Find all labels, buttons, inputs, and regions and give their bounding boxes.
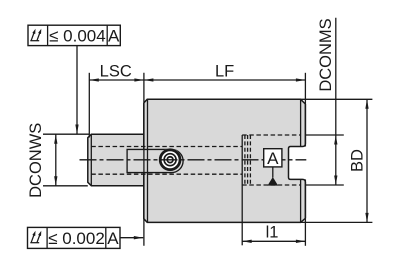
svg-text:DCONWS: DCONWS [27, 123, 45, 198]
svg-text:A: A [267, 149, 279, 168]
svg-text:LSC: LSC [100, 62, 132, 80]
svg-text:≤ 0.002: ≤ 0.002 [48, 229, 105, 248]
svg-text:l1: l1 [266, 224, 279, 242]
svg-text:A: A [108, 26, 120, 45]
svg-text:≤ 0.004: ≤ 0.004 [49, 26, 106, 45]
svg-text:BD: BD [349, 149, 367, 172]
svg-text:A: A [107, 229, 119, 248]
svg-text:LF: LF [215, 62, 234, 80]
svg-text:DCONMS: DCONMS [317, 18, 335, 91]
